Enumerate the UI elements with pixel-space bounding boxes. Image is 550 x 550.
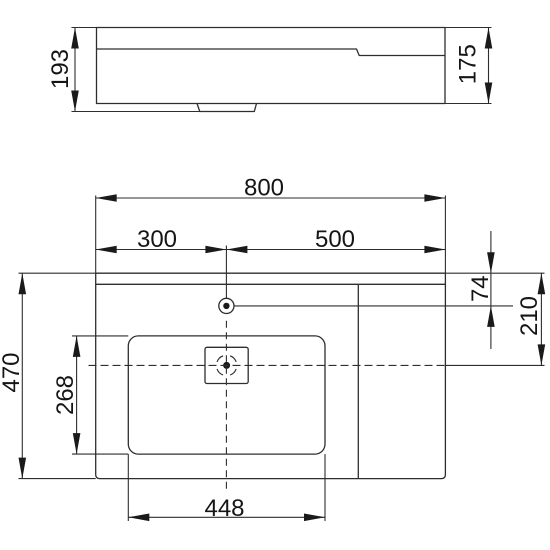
dimension 470: [0, 273, 96, 478]
drain dashed circle: [217, 356, 236, 375]
plan view outer outline: [96, 273, 446, 478]
dimension 800: [96, 175, 446, 274]
dimension 74: [467, 231, 495, 349]
basin rounded rectangle: [128, 336, 325, 454]
svg-text:74: 74: [467, 275, 494, 302]
side view outline: [97, 28, 446, 104]
svg-text:300: 300: [137, 226, 177, 253]
plan deck back line: [96, 283, 446, 285]
dimension 500: [226, 226, 445, 253]
dimension 300: [96, 226, 227, 253]
svg-text:175: 175: [455, 44, 482, 84]
dimension 175: [445, 28, 492, 104]
svg-text:800: 800: [244, 175, 284, 202]
horizontal centerline: [89, 364, 545, 366]
svg-text:448: 448: [204, 495, 244, 522]
dimension 448: [128, 454, 325, 522]
drain cover square: [205, 347, 248, 383]
svg-text:193: 193: [47, 49, 74, 89]
svg-text:268: 268: [52, 375, 79, 415]
vertical centerline: [225, 246, 227, 493]
dimension 193: [47, 28, 200, 112]
faucet hole: [219, 298, 234, 313]
extension line faucet to right: [234, 305, 513, 307]
dimension 268: [52, 336, 128, 454]
extension line top right shared: [445, 272, 544, 274]
svg-text:470: 470: [0, 352, 25, 392]
svg-text:500: 500: [315, 226, 355, 253]
plan deck step vertical: [357, 284, 359, 478]
side view drain boss: [197, 104, 257, 112]
dimension 210: [516, 273, 545, 365]
drain dot: [223, 362, 230, 369]
svg-text:210: 210: [516, 296, 543, 336]
side view rim line with step: [97, 49, 446, 56]
